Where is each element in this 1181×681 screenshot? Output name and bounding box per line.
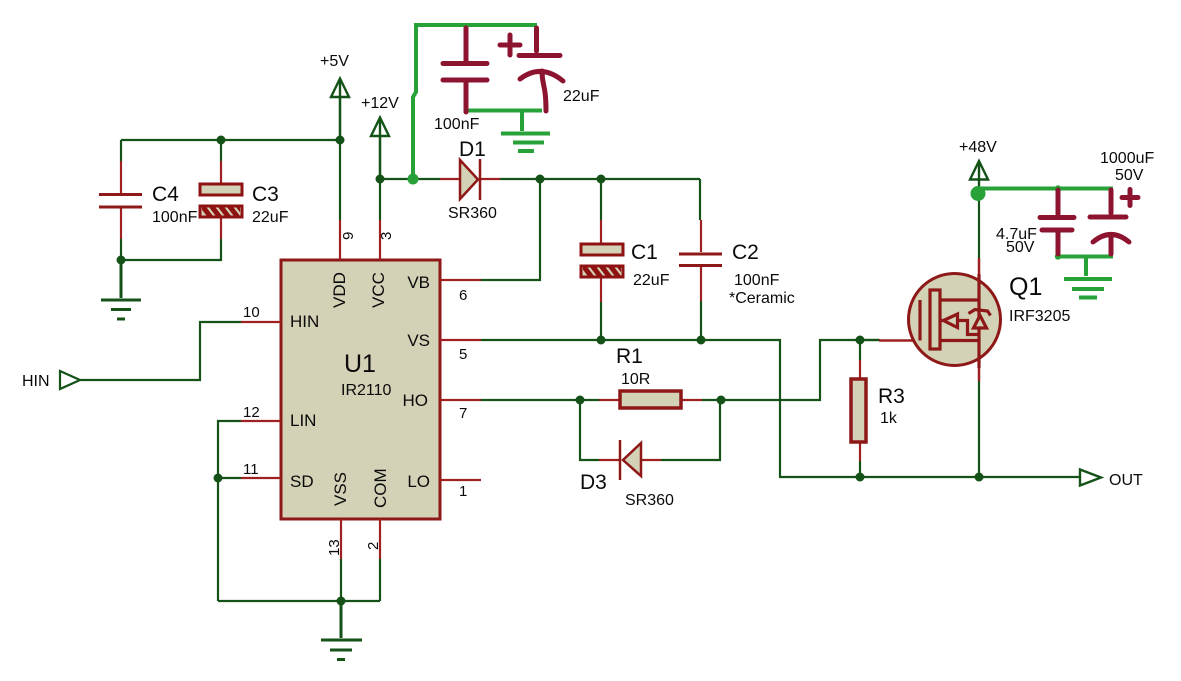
svg-text:22uF: 22uF xyxy=(563,88,600,105)
wire VSS stub xyxy=(340,559,342,601)
svg-text:R1: R1 xyxy=(616,345,643,368)
wire C4 to C3 bottom xyxy=(121,239,221,260)
wire +48V bulk cap rail (bright green) xyxy=(977,189,1113,257)
svg-text:VS: VS xyxy=(407,331,430,350)
svg-text:C1: C1 xyxy=(631,241,658,264)
svg-text:100nF: 100nF xyxy=(734,272,780,289)
svg-text:VCC: VCC xyxy=(369,272,388,308)
svg-text:D1: D1 xyxy=(459,138,486,161)
capacitor 100nF (floating decoupling) xyxy=(443,28,487,112)
wire bottom ground run xyxy=(218,600,380,602)
wire D1 cathode rail xyxy=(500,178,700,180)
wire +12V stem down to pin 3 xyxy=(379,136,381,220)
junction node SD / LIN xyxy=(214,474,223,483)
power +12V xyxy=(371,118,389,180)
junction node C2 bottom / VS xyxy=(697,336,706,345)
svg-text:3: 3 xyxy=(378,232,395,240)
wire C3 top stub xyxy=(220,140,222,161)
svg-text:10: 10 xyxy=(243,304,260,321)
junction node Q1 source / OUT xyxy=(975,473,984,482)
svg-text:SD: SD xyxy=(290,472,314,491)
capacitor C3 xyxy=(220,161,222,239)
junction node VB xyxy=(536,175,545,184)
svg-text:1000uF: 1000uF xyxy=(1100,150,1154,167)
svg-text:VSS: VSS xyxy=(331,472,350,506)
junction node C4 bottom / ground xyxy=(117,256,126,265)
wire VS rail xyxy=(481,340,1081,477)
wire C1 top stub xyxy=(600,179,602,220)
wire Q1 source to OUT rail xyxy=(978,381,980,477)
svg-text:1: 1 xyxy=(459,483,467,500)
wire C4 top pin stub xyxy=(120,140,122,161)
svg-text:C3: C3 xyxy=(252,183,279,206)
junction +48V node xyxy=(971,186,986,201)
svg-text:+5V: +5V xyxy=(320,53,349,70)
svg-text:SR360: SR360 xyxy=(448,205,497,222)
wire +12V to D1 anode xyxy=(380,178,440,180)
svg-text:HO: HO xyxy=(403,391,429,410)
svg-text:11: 11 xyxy=(243,461,259,478)
junction node R1 right / D3 xyxy=(717,396,726,405)
resistor R1 xyxy=(599,391,702,408)
wire LIN stub xyxy=(218,421,241,601)
svg-text:OUT: OUT xyxy=(1109,472,1143,489)
wire C1 bottom to VS xyxy=(600,302,602,340)
wire +5V rail to VDD xyxy=(121,139,340,141)
svg-text:HIN: HIN xyxy=(22,373,50,390)
transistor Q1 (IRF3205 MOSFET) xyxy=(879,258,1001,381)
svg-text:VB: VB xyxy=(407,273,430,292)
wire C2 top stub xyxy=(699,179,701,220)
wire Q1 drain from +48V xyxy=(978,194,980,258)
svg-text:R3: R3 xyxy=(878,385,905,408)
capacitor C4 xyxy=(120,161,122,239)
junction node R3 bottom / OUT xyxy=(856,473,865,482)
wire D3 right branch xyxy=(661,400,720,460)
svg-text:HIN: HIN xyxy=(290,312,319,331)
wire gate node to R3 xyxy=(860,339,880,341)
junction node VDD rail / C3 xyxy=(217,136,226,145)
U1 pin 13 (VSS) xyxy=(340,519,342,559)
U1 pin 2 (COM) xyxy=(379,519,381,559)
svg-text:7: 7 xyxy=(459,405,467,422)
ground bulk caps (bright green) xyxy=(1064,257,1112,298)
svg-text:LO: LO xyxy=(407,472,430,491)
svg-text:5: 5 xyxy=(459,346,467,363)
capacitor 1000uF 50V xyxy=(1090,190,1138,255)
ground under U1 (VSS/COM) xyxy=(321,601,362,660)
ground under C4 xyxy=(101,260,141,319)
wire D3 left branch xyxy=(580,400,599,460)
junction node VSS / COM / ground xyxy=(337,597,346,606)
U1 pin 5 (VS) xyxy=(440,339,481,341)
resistor R3 xyxy=(851,340,866,477)
svg-text:+12V: +12V xyxy=(361,95,399,112)
capacitor 4.7uF 50V xyxy=(1040,190,1074,254)
svg-text:10R: 10R xyxy=(621,371,650,388)
power +5V xyxy=(331,79,349,141)
capacitor C1 xyxy=(600,220,602,302)
junction node VDD rail / +5V xyxy=(336,136,345,145)
svg-text:U1: U1 xyxy=(344,350,376,378)
wire +5V stem down to pin 9 xyxy=(339,97,341,220)
svg-text:22uF: 22uF xyxy=(252,209,289,226)
U1 pin 7 (HO) xyxy=(440,399,481,401)
capacitor C2 xyxy=(700,220,702,301)
svg-text:22uF: 22uF xyxy=(633,272,670,289)
svg-text:SR360: SR360 xyxy=(625,492,674,509)
junction node +12V / D1 xyxy=(376,175,385,184)
svg-text:D3: D3 xyxy=(580,471,607,494)
capacitor 22uF (floating decoupling) xyxy=(500,28,563,111)
terminal HIN xyxy=(60,371,80,389)
U1 pin 10 (HIN) xyxy=(241,321,281,323)
svg-text:100nF: 100nF xyxy=(152,209,198,226)
svg-text:100nF: 100nF xyxy=(434,116,480,133)
diode D1 xyxy=(440,159,500,200)
ground floating decoupling (bright green) xyxy=(501,111,550,152)
svg-text:6: 6 xyxy=(459,287,467,304)
U1 pin 6 (VB) xyxy=(440,279,481,281)
junction node gate / R3 top xyxy=(856,336,865,345)
U1 pin 1 (LO) xyxy=(440,479,481,481)
wire HO to R1 xyxy=(481,399,599,401)
svg-text:13: 13 xyxy=(326,539,343,556)
svg-text:*Ceramic: *Ceramic xyxy=(729,290,795,307)
wire C4 bottom stub xyxy=(120,239,122,260)
svg-text:IR2110: IR2110 xyxy=(341,382,392,399)
svg-text:C2: C2 xyxy=(732,241,759,264)
U1 pin 9 (VDD) xyxy=(339,220,341,260)
svg-text:IRF3205: IRF3205 xyxy=(1009,308,1070,325)
wire COM stub xyxy=(379,559,381,601)
svg-text:+48V: +48V xyxy=(959,139,997,156)
diode D3 xyxy=(599,440,661,480)
U1 pin 12 (LIN) xyxy=(241,420,281,422)
svg-text:12: 12 xyxy=(243,404,260,421)
svg-text:COM: COM xyxy=(371,468,390,508)
wire floating decoupling loop (bright green) xyxy=(413,25,542,177)
wire HIN input run xyxy=(80,322,241,380)
svg-text:C4: C4 xyxy=(152,183,179,206)
svg-text:9: 9 xyxy=(340,232,357,240)
terminal OUT xyxy=(1080,470,1101,486)
wire C2 bottom to VS xyxy=(700,301,702,340)
junction node C1 bottom / VS xyxy=(597,336,606,345)
svg-text:50V: 50V xyxy=(1115,167,1144,184)
U1 pin 3 (VCC) xyxy=(379,220,381,260)
svg-text:VDD: VDD xyxy=(330,272,349,308)
junction floating loop to D1 rail xyxy=(408,174,419,185)
junction bulk cap rail nodes xyxy=(1055,185,1061,191)
power +48V xyxy=(970,161,988,192)
wire SD stub xyxy=(218,477,241,479)
svg-text:Q1: Q1 xyxy=(1009,273,1042,301)
junction node C1 top xyxy=(597,175,606,184)
IC U1 body xyxy=(281,260,440,519)
svg-text:LIN: LIN xyxy=(290,411,316,430)
junction node R1 left / D3 xyxy=(576,396,585,405)
svg-text:1k: 1k xyxy=(880,410,898,427)
svg-text:50V: 50V xyxy=(1006,239,1035,256)
U1 pin 11 (SD) xyxy=(241,477,281,479)
svg-text:2: 2 xyxy=(365,542,382,550)
wire VB riser xyxy=(481,179,540,280)
wire R1 right to gate riser xyxy=(702,340,879,400)
